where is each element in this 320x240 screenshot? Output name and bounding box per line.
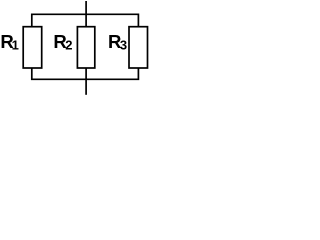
svg-text:3: 3: [120, 37, 127, 52]
svg-text:1: 1: [12, 37, 19, 52]
svg-text:2: 2: [65, 37, 72, 52]
